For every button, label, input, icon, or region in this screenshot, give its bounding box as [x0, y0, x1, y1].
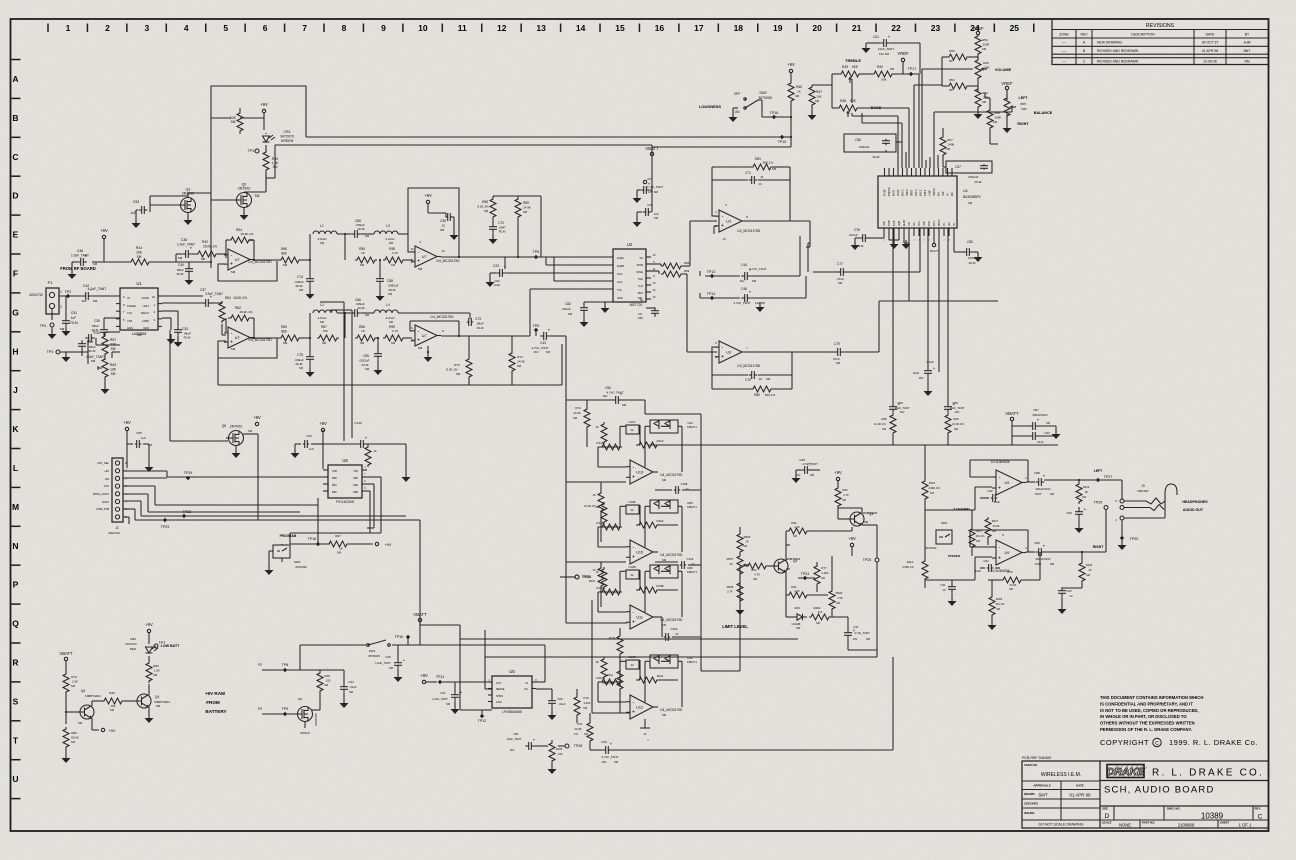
power VBATT lowbatt [59, 651, 73, 661]
resistor R72 24.9K [573, 400, 590, 447]
ground C120 [924, 377, 933, 396]
ground C29 [633, 212, 643, 227]
copyright notice [1100, 695, 1258, 747]
resistor R45b 16K [102, 691, 124, 712]
testpoint TP17 dia [908, 67, 917, 76]
capacitor C43 4.7uF [532, 328, 551, 355]
capacitor C47 4.7uF [844, 617, 871, 641]
resistor R77 3.40K [814, 562, 829, 592]
connector P1 3204732 [29, 281, 62, 314]
wire R64 loop [226, 240, 254, 260]
ground C34p [340, 693, 349, 708]
testpoint TP24 dia [798, 572, 815, 580]
capacitor C56 box [844, 134, 896, 159]
power +9V cr2 [145, 622, 153, 644]
power VREF treble [897, 51, 909, 74]
wire C36 to R44 [92, 261, 130, 263]
wire U3a plus [714, 226, 726, 241]
wire C38 to R42 [192, 253, 198, 255]
ground C28 [633, 190, 642, 203]
wire U8 right pins [367, 477, 381, 533]
EQ bottom wire [701, 670, 740, 672]
resistor R62 resistor [228, 306, 253, 321]
wire R46 node down [790, 104, 792, 147]
capacitor C75 film [294, 338, 314, 370]
wire C23 to U2 [506, 272, 613, 274]
wire U1 pin stubs drop [162, 311, 178, 330]
wire U9b inputs [925, 530, 1028, 580]
wire bus y301 [879, 300, 998, 302]
wire TP23 line [135, 520, 420, 625]
resistor R106 1K [535, 740, 563, 774]
ground C82 [580, 314, 589, 327]
ground U4 pins b [902, 236, 911, 249]
wire C37 path [162, 296, 247, 303]
capacitor C55b .0022uF [358, 337, 382, 371]
U1 left pin stubs [116, 296, 120, 326]
wire Q1 drain to loop [188, 193, 211, 197]
capacitor C50 4.7uF [603, 386, 627, 407]
wire tone top [493, 196, 541, 257]
resistor R76 8.2K [447, 336, 472, 379]
ground C23 [486, 273, 501, 287]
wire R65 node [301, 313, 311, 339]
testpoint TP8 dia [282, 663, 289, 672]
transistor Q4 MMBT3904 [772, 557, 801, 573]
potentiometer R507 1K [727, 553, 749, 577]
wire C38 left [176, 254, 211, 262]
resistor R58t 240K [985, 93, 1001, 144]
wire R44 to loop node [153, 261, 212, 263]
power +5V limit [834, 470, 842, 488]
wire y445 rail [648, 444, 1058, 446]
wire C42 to U1 [92, 295, 120, 297]
resistor R82 1.5K [146, 661, 160, 683]
wire +9V stub [428, 204, 446, 213]
wire Q2 drain [244, 173, 266, 192]
pin number U7c [410, 240, 445, 264]
testpoint TP2 dia [65, 290, 72, 298]
resistor R404 470 [809, 606, 848, 625]
wire node down to U1 area [210, 262, 212, 268]
testpoint TP18 dia [770, 111, 779, 119]
capacitor C74 film [294, 260, 314, 292]
ground C80 [973, 252, 983, 262]
wire R67p to +9V [349, 543, 373, 545]
op-amp U3b [715, 341, 746, 363]
resistor R80 90.6K [63, 727, 79, 749]
resistor R51 NP [942, 78, 978, 92]
testpoint TP22 dia [182, 510, 191, 518]
label U7a [231, 260, 273, 274]
resistor R115 4.99K [922, 445, 940, 510]
capacitor C53 [130, 200, 147, 215]
potentiometer R63 10K [98, 356, 117, 380]
transistor Q4 MMBT3904 [135, 694, 170, 708]
wire y625 link [420, 624, 460, 626]
wire U1 bus down [170, 330, 228, 441]
power +9V krow [123, 420, 131, 431]
switch SW4 3670032 [926, 521, 952, 550]
wire R58t down [990, 143, 998, 145]
label PROGRAM [280, 534, 297, 538]
capacitor C140 cap [323, 436, 406, 449]
label C49 value [602, 755, 619, 764]
resistor R50 NP [942, 49, 978, 63]
wire U5 gnd row [460, 625, 482, 710]
potentiometer R45 50K volume [975, 56, 1012, 92]
label TREBLE [845, 58, 861, 63]
resistor R47 10K [809, 85, 832, 107]
resistor R46 1K [788, 73, 802, 104]
ground C75 [306, 363, 315, 377]
testpoint TP15 dia [778, 135, 787, 144]
ground U2 [601, 302, 614, 313]
resistor R116 33 [1079, 551, 1093, 583]
wire y639 rail [460, 625, 798, 639]
capacitor C57 box [943, 157, 992, 184]
wire P1 pin2 down [51, 309, 53, 320]
ground C74 [306, 285, 315, 299]
EQ filter stage at y617 [595, 565, 697, 629]
wire jack common [1121, 520, 1123, 543]
title block [1022, 756, 1269, 828]
capacitor C88 330uF [1026, 471, 1046, 486]
wire R54l to Q4l [768, 565, 775, 567]
wire Q3 collector [92, 701, 104, 706]
capacitor C61 [940, 580, 956, 606]
testpoint TP7 [154, 641, 165, 648]
wire R114 top [924, 510, 926, 545]
EQ output caps2 [655, 557, 701, 569]
wire U3a out right [746, 221, 810, 247]
wire C87 C32 right [1038, 426, 1061, 439]
wire Q4 collector up [786, 545, 790, 561]
ground U7d pin11 [424, 346, 433, 362]
ground jack [1118, 541, 1127, 550]
wire U1 lower pins [96, 338, 120, 358]
wire P1 pin1 to U1 [59, 295, 82, 297]
label +9V RAW FROM BATTERY [205, 691, 227, 714]
wire C79 row [753, 351, 835, 353]
capacitor C31 10uF [873, 35, 894, 57]
testpoint TP11 dia [436, 675, 492, 684]
capacitor C79cap [745, 371, 771, 382]
power +9V loudness [787, 62, 795, 73]
ground C51 [62, 327, 71, 336]
wire volume wiper [922, 69, 973, 168]
resistor R74 24.9K [509, 336, 525, 373]
ground C76 [851, 238, 860, 250]
wire rail y147 [652, 146, 791, 148]
wire Q1 drain up [150, 196, 188, 198]
wire R66 to node [301, 259, 311, 261]
resistor R99 [945, 413, 964, 445]
wires U4 top pin fan [898, 74, 938, 168]
wire EQ top entry [645, 413, 650, 415]
resistor R48p 100 [300, 670, 331, 700]
label P3 [258, 707, 262, 711]
IC U4 BA3935BFS [878, 176, 981, 228]
IC U1 LA3335M [120, 281, 158, 337]
resistor R98 [874, 413, 896, 445]
testpoint TP1 [248, 149, 259, 153]
wire U4 pin down a [908, 236, 910, 301]
label LEFT [1019, 96, 1029, 100]
testpoint TP30 [1120, 536, 1138, 541]
power VREF balance [1001, 81, 1013, 90]
ground C53 [132, 210, 141, 228]
power VBATT switch [413, 612, 427, 622]
ground C35 [446, 213, 459, 240]
transistor Q6 MOSFET [295, 697, 318, 735]
capacitor C34p .01uF [320, 670, 357, 694]
capacitor C51 .1uF film [60, 296, 78, 331]
testpoint TP25 [862, 525, 879, 650]
capacitor C41 1uF [432, 682, 463, 714]
wire eq to limit [739, 566, 741, 671]
wire C44 right [751, 236, 800, 276]
wire Q5l wiring [838, 508, 862, 519]
wire R52 to Q5l [809, 527, 852, 531]
resistor R64 49.9K [228, 228, 254, 243]
wire U3b loop [712, 347, 792, 375]
IC U8 PIC16C505 [323, 458, 367, 504]
capacitor C54 [78, 340, 96, 353]
wire U7a out [253, 259, 280, 261]
testpoint TP5 dia [533, 324, 540, 336]
ground TP14 [756, 302, 765, 312]
U1 pin labels [127, 296, 149, 330]
wire C56 link [862, 113, 902, 152]
capacitor C72 .0047uF [489, 219, 506, 234]
ground SW2 [729, 108, 739, 122]
IC U2 MST720 [613, 242, 646, 307]
resistor R140 [365, 444, 377, 467]
power +9V program [375, 542, 392, 547]
power +9V q5 [848, 536, 856, 556]
wire TP3 row [60, 340, 88, 364]
capacitor C36 1uF tant [71, 249, 98, 266]
wire C43 right [550, 336, 566, 400]
wire y657 rail [485, 630, 877, 657]
ground C58 [376, 285, 385, 301]
capacitor C65 .039uF [351, 219, 370, 238]
testpoint TP25 [560, 575, 591, 579]
U5 pin labels [488, 679, 537, 704]
power +9V reg [420, 673, 437, 684]
label STEREO [948, 554, 961, 558]
EQ inter resistors a [584, 482, 604, 542]
transistor Q5k 2N7002 [222, 424, 253, 446]
resistor R67 700 [317, 325, 339, 345]
ground C33 [167, 334, 183, 347]
resistor R57t 240K [940, 128, 954, 157]
U8 pin labels [332, 466, 366, 494]
wire P2 row [262, 645, 367, 670]
capacitor C23 [493, 257, 507, 277]
EQ output caps [655, 482, 701, 494]
power +9V U7c [424, 193, 432, 204]
wires into U2 bundle [530, 257, 613, 336]
op-amp U7d [411, 325, 441, 346]
transistor Q1 2N7002 [178, 188, 196, 213]
label LEFT out [1094, 469, 1103, 473]
label U7b [231, 338, 273, 351]
op-amp U9a NJM4556 [990, 460, 1027, 495]
testpoint TP4 [40, 323, 54, 328]
ground balance [1003, 124, 1012, 133]
label U7d [410, 315, 454, 354]
wire U5 bypass loop [485, 657, 492, 689]
wire volume left loop [941, 57, 943, 86]
wire L1 to C65 node [337, 233, 351, 260]
capacitor C6 .049 [637, 307, 659, 320]
capacitor C64h [975, 559, 1000, 573]
diode CR3 LM14B [786, 595, 807, 630]
wire treble loop left [832, 74, 839, 108]
label FROM RF BOARD [60, 266, 96, 271]
wire Q1 gate [150, 198, 178, 212]
label RIGHT [1017, 122, 1029, 126]
U4 top pin stubs and labels [885, 168, 955, 196]
capacitor C85 10uF [944, 228, 965, 414]
resistor R80b 56K [750, 386, 776, 397]
wire L4 right [398, 313, 470, 318]
testpoint TP12 dia [478, 710, 492, 723]
capacitor C48 4.7uF [792, 458, 821, 483]
U1 right pin stubs [158, 296, 162, 326]
testpoint TP6 dia [533, 250, 540, 259]
EQ stage4 input wire [592, 600, 630, 713]
wire balance wiper [934, 107, 1012, 168]
wire U7b fb box [218, 338, 277, 358]
resistor R51 [219, 301, 225, 323]
resistor R617 301 [969, 510, 985, 556]
capacitor C46 4.7uF [734, 287, 766, 305]
resistor R73h 24.9K [988, 552, 1040, 591]
ground R80 [62, 749, 71, 763]
wire U7c out [441, 256, 490, 258]
resistor R59b 4.7K [383, 325, 405, 345]
ground Q1 source [184, 213, 193, 225]
EQ stage5 bottom [640, 719, 650, 743]
power VREF volume [972, 26, 984, 35]
label RIGHT out [1093, 545, 1104, 549]
switch SW3 3670032 [273, 545, 307, 569]
testpoint TP14 dia [700, 292, 740, 300]
capacitor C45 1uF [375, 645, 406, 682]
ground R47 [808, 107, 817, 120]
label CR1 [280, 130, 294, 143]
revisions table [1052, 19, 1269, 65]
top ruler grid numbers 1-25 [48, 23, 1034, 33]
wire C39 [104, 318, 120, 327]
ground C63 [1058, 597, 1067, 614]
EQ filter stage at y707 [595, 655, 697, 719]
wire R57 to pot [105, 332, 120, 360]
label C140 [354, 421, 362, 425]
ground C55b [374, 360, 383, 375]
resistor R117 24.9K [985, 517, 1000, 545]
wire C88 to left out [1044, 480, 1122, 499]
potentiometer R49 50K treble [837, 65, 863, 83]
wire bus x352 [330, 310, 352, 438]
wire out to U2 [490, 256, 613, 258]
resistor pair R6x [646, 261, 690, 277]
wire treble wiper to bass [851, 79, 853, 103]
ground C55k [143, 444, 154, 472]
capacitor C71 [745, 171, 764, 186]
wire R80b loop [712, 375, 792, 389]
resistor R79e 3.40K [574, 689, 591, 723]
resistor R56 1K [355, 325, 377, 345]
wire C47 gnd [848, 639, 877, 657]
capacitor C28 4.7uF [640, 182, 663, 195]
capacitor C40 .68uF [176, 262, 193, 276]
wire C140 gnd [402, 444, 411, 482]
resistor R51l 4.7K [786, 571, 828, 598]
wire L2 node [337, 312, 351, 338]
testpoint TP13 dia [705, 270, 740, 278]
U4 bottom pin labels [883, 219, 956, 242]
wire program line [282, 544, 330, 562]
capacitor C63 [1058, 583, 1082, 598]
resistor R54l 4.7K [746, 563, 768, 581]
wire U3a loop [712, 180, 790, 221]
potentiometer R55 50K balance [1004, 90, 1053, 127]
resistor R71 24.9K [574, 713, 593, 750]
power +9V q3 [101, 728, 116, 733]
wire J2 staircase [123, 471, 406, 524]
ground C40 [185, 275, 194, 285]
LED CR1 green [263, 133, 276, 142]
wire R51 to U7b [222, 324, 226, 335]
inductor L2 3.9mH [313, 303, 337, 324]
op-amp U9b NJM4556 [990, 533, 1027, 573]
wire R81 loop [712, 167, 790, 180]
resistor R57 27K [102, 333, 117, 357]
wire TP13 row [646, 271, 700, 276]
capacitor C29 .1uF [643, 203, 659, 220]
capacitor C77 .47uF [836, 262, 847, 285]
resistor R42 25K [196, 240, 218, 261]
wire volume node down [914, 85, 942, 168]
ground Q4b [145, 707, 154, 723]
wire U7d loop top [410, 321, 459, 336]
wire SW2 to node [758, 100, 792, 118]
capacitor C66 .039uF [351, 298, 370, 317]
op-amp U7b [224, 327, 254, 348]
capacitor C89 330uF [1026, 541, 1046, 556]
EQ stage2 input [566, 561, 626, 563]
resistor R59 24.9K [515, 196, 531, 219]
wire C77 right up [846, 228, 920, 272]
wire U7b out [250, 337, 280, 339]
capacitor C55k .1uF [127, 431, 153, 468]
resistor R66 866 [279, 247, 301, 267]
wire U4 pin down b [938, 236, 940, 372]
capacitor C37 3.3uF [200, 288, 223, 307]
wire bass right [859, 107, 909, 109]
capacitor C80 .047uF [954, 236, 977, 265]
EQ inter resistors b [589, 562, 604, 607]
wire rail second [275, 145, 652, 151]
resistor R509 2.7K [727, 576, 743, 603]
resistor R58 8.2K [477, 197, 496, 219]
power +9V [260, 102, 268, 113]
ground C34k [291, 444, 302, 458]
